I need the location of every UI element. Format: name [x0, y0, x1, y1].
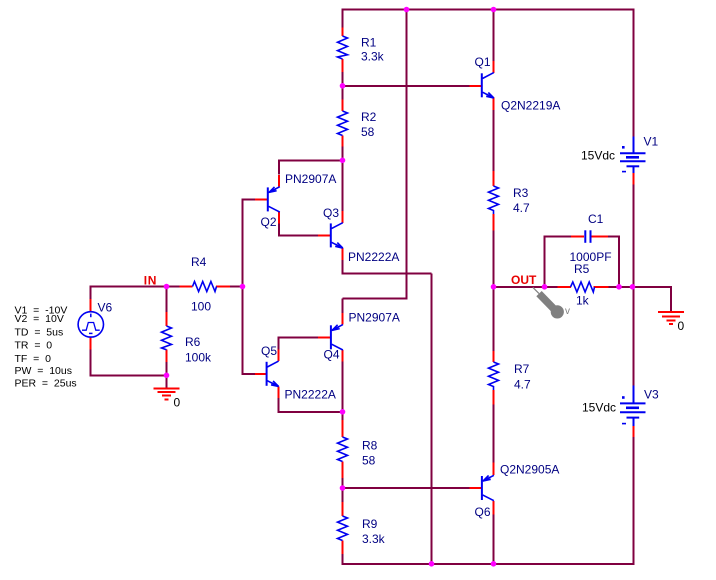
wire node A to R2 — [342, 85, 344, 100]
svg-text:PN2907A: PN2907A — [349, 311, 400, 325]
voltage source V6 circle — [78, 312, 103, 337]
battery V3 minus mark — [622, 423, 626, 425]
pin stub Q6 collector — [493, 501, 495, 515]
wire IN node to R4 — [167, 286, 181, 288]
svg-text:3.3k: 3.3k — [361, 50, 385, 64]
svg-text:R1: R1 — [361, 36, 377, 50]
pin stub Q3 collector — [342, 211, 344, 223]
node A junction R1 R2 Q1 base — [340, 83, 346, 89]
ground 0 right bars — [658, 311, 684, 313]
pin stub R9 top — [342, 502, 344, 516]
svg-text:PN2222A: PN2222A — [348, 250, 399, 264]
svg-text:Q3: Q3 — [323, 206, 339, 220]
svg-text:Q2: Q2 — [261, 215, 277, 229]
pin stub R6 bottom — [166, 350, 168, 363]
svg-text:PW = 10us: PW = 10us — [15, 365, 72, 377]
svg-text:Q5: Q5 — [261, 344, 277, 358]
svg-text:100k: 100k — [185, 351, 212, 365]
wire Q2 emitter to node B — [278, 160, 280, 174]
node C junction R4 base rail — [240, 284, 246, 290]
wire top rail — [342, 9, 635, 11]
pin stub Q5 emitter — [278, 387, 280, 399]
wire node D to ground stem — [166, 375, 168, 388]
svg-text:58: 58 — [361, 125, 375, 139]
wire Q1 emitter to R3 — [493, 110, 495, 172]
wire Q5 collector up — [278, 336, 280, 350]
wire bottom rail — [342, 563, 635, 565]
pin stub R3 bottom — [493, 214, 495, 231]
capacitor C1 plate right — [590, 230, 592, 243]
voltage source V6 plus tick — [90, 314, 92, 318]
battery V3 plate long top — [620, 402, 646, 404]
resistor R3 — [489, 186, 499, 214]
wire node A to Q1 base — [343, 85, 471, 87]
wire C1 loop left vertical — [544, 236, 546, 288]
resistor R9 — [338, 516, 348, 541]
transistor Q2 body — [268, 187, 280, 212]
svg-text:R3: R3 — [513, 186, 529, 200]
svg-text:1000PF: 1000PF — [570, 250, 612, 264]
svg-text:Q4: Q4 — [324, 348, 340, 362]
wire out rail to V3 plus — [633, 287, 635, 386]
battery V1 lead bottom — [633, 166, 635, 173]
battery V3 lead top — [633, 386, 635, 404]
pin stub Q4 emitter — [342, 313, 344, 325]
wire OUT rail — [494, 286, 546, 288]
svg-text:V6: V6 — [98, 301, 113, 315]
wire long vertical from top rail — [406, 10, 408, 300]
svg-text:0: 0 — [174, 396, 181, 410]
wire IN horizontal from V6 — [90, 286, 168, 288]
pin stub V3 minus — [633, 426, 635, 438]
node IN junction — [164, 284, 170, 290]
battery V1 lead top — [633, 137, 635, 154]
node junction top rail at Q1 collector — [491, 7, 497, 13]
wire R2 to node B — [342, 146, 344, 161]
svg-text:Q1: Q1 — [475, 55, 491, 69]
pin stub R1 top — [342, 28, 344, 37]
resistor R6 — [162, 326, 172, 350]
wire node F to Q6 base — [343, 487, 471, 489]
svg-text:PN2222A: PN2222A — [285, 388, 336, 402]
node junction bottom rail Q6 collector — [491, 561, 497, 567]
node E junction Q4 collector Q5 emitter R8 — [340, 409, 346, 415]
pin stub Q5 base — [255, 373, 267, 375]
svg-text:15Vdc: 15Vdc — [582, 401, 616, 415]
pin stub R2 top — [342, 100, 344, 112]
node junction OUT rail V1 V3 — [630, 284, 636, 290]
node D junction R6 V6 ground — [164, 373, 170, 379]
pin stub Q1 base — [470, 85, 483, 87]
pin stub R4 right — [216, 286, 230, 288]
wire R3 to node OUT — [493, 230, 495, 288]
resistor R8 — [338, 437, 348, 462]
transistor Q4 body — [331, 325, 343, 350]
pin stub Q3 emitter — [342, 248, 344, 260]
wire R5 right to nodes — [608, 286, 633, 288]
wire Q5 emitter down — [278, 398, 280, 413]
pin stub R1 bottom — [342, 59, 344, 72]
pin stub Q1 collector — [493, 61, 495, 73]
resistor R4 — [193, 282, 217, 292]
svg-text:R6: R6 — [185, 335, 201, 349]
wire R6 to node D — [166, 350, 168, 376]
battery V1 plate long top — [620, 152, 646, 154]
pin stub R8 bottom — [342, 462, 344, 479]
battery V1 plate short mid — [626, 156, 639, 159]
wire Q5 collector to Q4 base — [278, 336, 319, 338]
wire node B to Q3 collector — [342, 160, 344, 211]
voltage source V6 pulse waveform — [82, 323, 100, 331]
wire base rail to Q2 base — [242, 198, 256, 200]
node B junction R2 Q2 emitter Q3 collector — [340, 158, 346, 164]
svg-text:R8: R8 — [362, 439, 378, 453]
svg-text:15Vdc: 15Vdc — [581, 149, 615, 163]
battery V3 plate short bottom — [627, 417, 640, 419]
wire corner down to right ground — [670, 287, 672, 313]
wire node OUT to R7 — [493, 287, 495, 352]
wire node F to R9 — [342, 488, 344, 503]
transistor Q5 body — [267, 361, 279, 386]
pin stub V6 minus — [90, 337, 92, 350]
wire C1 loop right vertical — [618, 237, 620, 288]
resistor R1 — [338, 36, 348, 59]
svg-text:3.3k: 3.3k — [362, 532, 386, 546]
pin stub R7 bottom — [493, 390, 495, 405]
svg-text:v: v — [565, 306, 570, 317]
svg-text:IN: IN — [144, 273, 157, 287]
wire Q1 collector to top rail — [493, 10, 495, 62]
wire base rail to Q5 base — [242, 373, 256, 375]
battery V1 plate short bottom — [627, 165, 640, 167]
wire R7 to Q6 emitter — [493, 404, 495, 463]
ground 0 left bars — [154, 387, 180, 389]
wire R4 to node C — [230, 286, 244, 288]
wire Q4 collector down to node E — [342, 361, 344, 413]
voltage probe at OUT — [533, 287, 539, 293]
svg-text:4.7: 4.7 — [514, 378, 531, 392]
wire node E to R8 — [342, 412, 344, 421]
wire Q4 emitter rail horizontal — [343, 298, 407, 300]
svg-text:PN2907A: PN2907A — [285, 172, 336, 186]
transistor Q3 body — [331, 223, 343, 248]
wire top rail corner to V1 — [633, 10, 635, 138]
pin stub V6 plus — [90, 299, 92, 312]
svg-text:0: 0 — [678, 319, 685, 333]
wire IN node to R6 — [166, 287, 168, 313]
pin stub R4 left — [180, 286, 193, 288]
battery V3 plus mark — [622, 396, 625, 399]
node F junction R8 R9 Q6 base — [340, 485, 346, 491]
pin stub Q3 base — [318, 234, 331, 236]
svg-text:R9: R9 — [362, 517, 378, 531]
wire rail to R1 — [342, 10, 344, 29]
node junction C1 left R5 left — [542, 284, 548, 290]
svg-text:R4: R4 — [191, 255, 207, 269]
svg-text:TF = 0: TF = 0 — [15, 353, 52, 365]
svg-text:TR = 0: TR = 0 — [15, 340, 53, 352]
wire R9 to bottom rail — [342, 554, 344, 565]
pin stub Q2 emitter — [278, 175, 280, 187]
svg-text:Q6: Q6 — [475, 505, 491, 519]
pin stub R5 left — [558, 286, 572, 288]
wire V6 minus down — [90, 349, 92, 376]
svg-text:V3: V3 — [644, 388, 659, 402]
pin stub R7 top — [493, 351, 495, 362]
pin stub Q5 collector — [278, 350, 280, 362]
battery V1 plate long mid — [620, 160, 646, 162]
transistor Q6 body — [482, 475, 494, 500]
wire Q2 collector to Q3 base — [278, 223, 280, 235]
wire V6 to node D horizontal — [90, 374, 168, 376]
wire R1 to node A — [342, 72, 344, 87]
wire C1 loop top right — [608, 236, 621, 238]
pin stub Q6 emitter — [493, 463, 495, 476]
svg-text:58: 58 — [362, 454, 376, 468]
svg-text:C1: C1 — [588, 212, 604, 226]
svg-text:TD = 5us: TD = 5us — [15, 327, 64, 339]
svg-text:R7: R7 — [514, 362, 530, 376]
wire V1 minus down to out rail — [633, 184, 635, 288]
wire C1 loop top left — [544, 236, 572, 238]
pin stub Q1 emitter — [493, 98, 495, 111]
wire base rail vertical Q2-Q5 — [242, 198, 244, 374]
battery V3 plate long mid — [620, 411, 646, 413]
node junction top rail at long vertical — [404, 7, 410, 13]
transistor Q1 body — [482, 73, 494, 98]
wire Q5 emitter to node E — [278, 411, 344, 413]
wire Q3 emitter rail horizontal — [343, 273, 432, 275]
pin stub R9 bottom — [342, 541, 344, 555]
wire OUT rail to right ground — [633, 286, 673, 288]
pin stub Q2 base — [255, 198, 268, 200]
svg-text:V2 = 10V: V2 = 10V — [15, 313, 64, 325]
battery V1 minus mark — [622, 171, 626, 173]
capacitor C1 plate left — [584, 230, 586, 243]
svg-text:OUT: OUT — [511, 273, 537, 287]
wire Q6 collector to bottom rail — [493, 514, 495, 565]
wire R8 to node F — [342, 478, 344, 490]
svg-text:100: 100 — [191, 300, 211, 314]
pin stub V1 minus — [633, 173, 635, 185]
svg-text:1k: 1k — [576, 294, 590, 308]
resistor R5 — [571, 282, 595, 292]
wire V3 minus to bottom rail — [633, 437, 635, 565]
battery V3 lead bottom — [633, 418, 635, 426]
pin stub Q6 base — [470, 487, 482, 489]
pin stub Q4 base — [318, 336, 331, 338]
wire long drop to bottom rail — [431, 274, 433, 564]
svg-text:R5: R5 — [574, 262, 590, 276]
pin stub R2 bottom — [342, 136, 344, 147]
pin stub R3 top — [493, 171, 495, 186]
svg-text:Q2N2905A: Q2N2905A — [500, 463, 559, 477]
pin stub R6 top — [166, 312, 168, 326]
svg-text:V1: V1 — [644, 135, 659, 149]
wire Q3 emitter down — [342, 260, 344, 275]
resistor R7 — [489, 362, 499, 390]
svg-text:Q2N2219A: Q2N2219A — [501, 99, 560, 113]
node junction bottom rail long drop — [429, 561, 435, 567]
svg-text:R2: R2 — [361, 110, 377, 124]
battery V1 plus mark — [622, 146, 625, 149]
pin stub C1 right — [592, 236, 609, 238]
pin stub R5 right — [594, 286, 609, 288]
node OUT junction R3 R7 — [491, 284, 497, 290]
pin stub Q2 collector — [278, 212, 280, 224]
svg-text:PER = 25us: PER = 25us — [15, 377, 77, 389]
pin stub C1 left — [571, 236, 584, 238]
svg-text:4.7: 4.7 — [513, 201, 530, 215]
pin stub Q4 collector — [342, 350, 344, 362]
wire V6 plus corner — [90, 286, 92, 300]
node junction C1 right R5 right — [616, 284, 622, 290]
resistor R2 — [338, 111, 348, 136]
pin stub R8 top — [342, 420, 344, 437]
voltage source V6 minus tick — [89, 332, 93, 334]
wire Q4 emitter up — [342, 299, 344, 314]
battery V3 plate short mid — [626, 406, 639, 409]
